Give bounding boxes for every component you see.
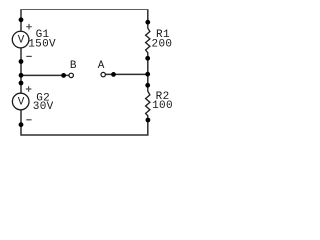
svg-text:V: V bbox=[18, 97, 25, 109]
svg-text:30V: 30V bbox=[33, 101, 54, 113]
svg-text:200: 200 bbox=[152, 39, 173, 51]
svg-text:B: B bbox=[70, 60, 77, 72]
svg-text:100: 100 bbox=[152, 100, 173, 112]
svg-text:A: A bbox=[98, 60, 105, 72]
svg-text:V: V bbox=[18, 35, 25, 47]
svg-text:150V: 150V bbox=[28, 38, 56, 50]
